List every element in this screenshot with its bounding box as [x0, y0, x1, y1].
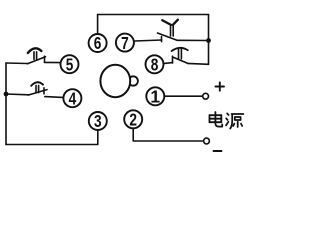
delay symbol pin 5 (double bar)	[34, 52, 37, 60]
pin circle 8	[146, 55, 164, 73]
wire: pin 7 right lead	[177, 39, 209, 41]
wire: pin 4 right lead	[45, 96, 63, 99]
delay symbol pin 5 (dome arc)	[28, 48, 42, 53]
delay symbol pin 8 (double bar)	[179, 49, 182, 59]
pin circle 6	[89, 34, 107, 52]
contact blade pin 5	[28, 57, 46, 64]
svg-text:8: 8	[151, 55, 159, 75]
contact tick pin 5	[44, 56, 46, 62]
wire: pin 8 left lead	[164, 62, 172, 65]
wire: pin 5 right lead	[45, 61, 61, 63]
pin circle 1	[146, 87, 164, 105]
wire: pin 8 right lead	[188, 62, 209, 65]
wire: right rail	[208, 15, 210, 65]
svg-text:4: 4	[69, 88, 77, 108]
wire: pin 1 lead to + terminal	[165, 95, 203, 97]
wire: top rail	[98, 14, 209, 16]
pin circle 4	[63, 89, 81, 107]
plus sign (+)	[216, 82, 225, 90]
contact tick pin 4	[43, 88, 45, 94]
wire: pin 5 left lead	[6, 62, 28, 65]
contact tick pin 8	[172, 56, 174, 63]
delay symbol pin 8 (dome arc)	[172, 48, 188, 51]
delay symbol pin 7 (double bar)	[171, 25, 174, 36]
pin circle 7	[116, 34, 134, 52]
socket center circle	[100, 65, 130, 97]
terminal circle -	[204, 138, 210, 144]
node: junction on left rail (pin 4 branch)	[4, 92, 9, 97]
socket keyway bump	[129, 76, 138, 85]
wire: pin 6 up to top rail	[97, 15, 99, 34]
delay symbol pin 4 (dome arc)	[31, 82, 43, 86]
svg-text:3: 3	[94, 111, 102, 131]
minus sign (-)	[214, 150, 222, 152]
contact blade pin 8	[174, 57, 188, 63]
svg-text:5: 5	[66, 54, 74, 74]
terminal circle +	[203, 93, 209, 99]
contact blade pin 7	[158, 33, 178, 40]
contact blade pin 4	[29, 90, 48, 95]
glyph 电	[210, 112, 223, 127]
svg-text:2: 2	[129, 110, 137, 130]
svg-text:7: 7	[121, 33, 129, 53]
svg-text:1: 1	[150, 87, 160, 107]
pin circle 3	[89, 112, 107, 130]
svg-text:6: 6	[94, 33, 102, 53]
node: junction on right rail (pin 7 branch)	[206, 38, 211, 43]
delay symbol pin 4 (double bar)	[36, 85, 39, 92]
wire: left rail	[5, 63, 7, 145]
wire: pin 2 lead down and right to - terminal	[133, 129, 203, 141]
contact tick pin 7	[161, 37, 163, 42]
glyph 源	[226, 113, 243, 128]
pin circle 2	[124, 110, 142, 128]
delay symbol pin 7 (cup arc)	[162, 20, 178, 25]
wire: pin 4 left lead	[6, 93, 29, 96]
wire: pin 7 left lead	[135, 40, 162, 41]
wire: bottom run to pin 3	[6, 131, 98, 145]
label 电源 (power) : hand drawn glyphs	[210, 112, 244, 129]
pin circle 5	[61, 55, 79, 73]
